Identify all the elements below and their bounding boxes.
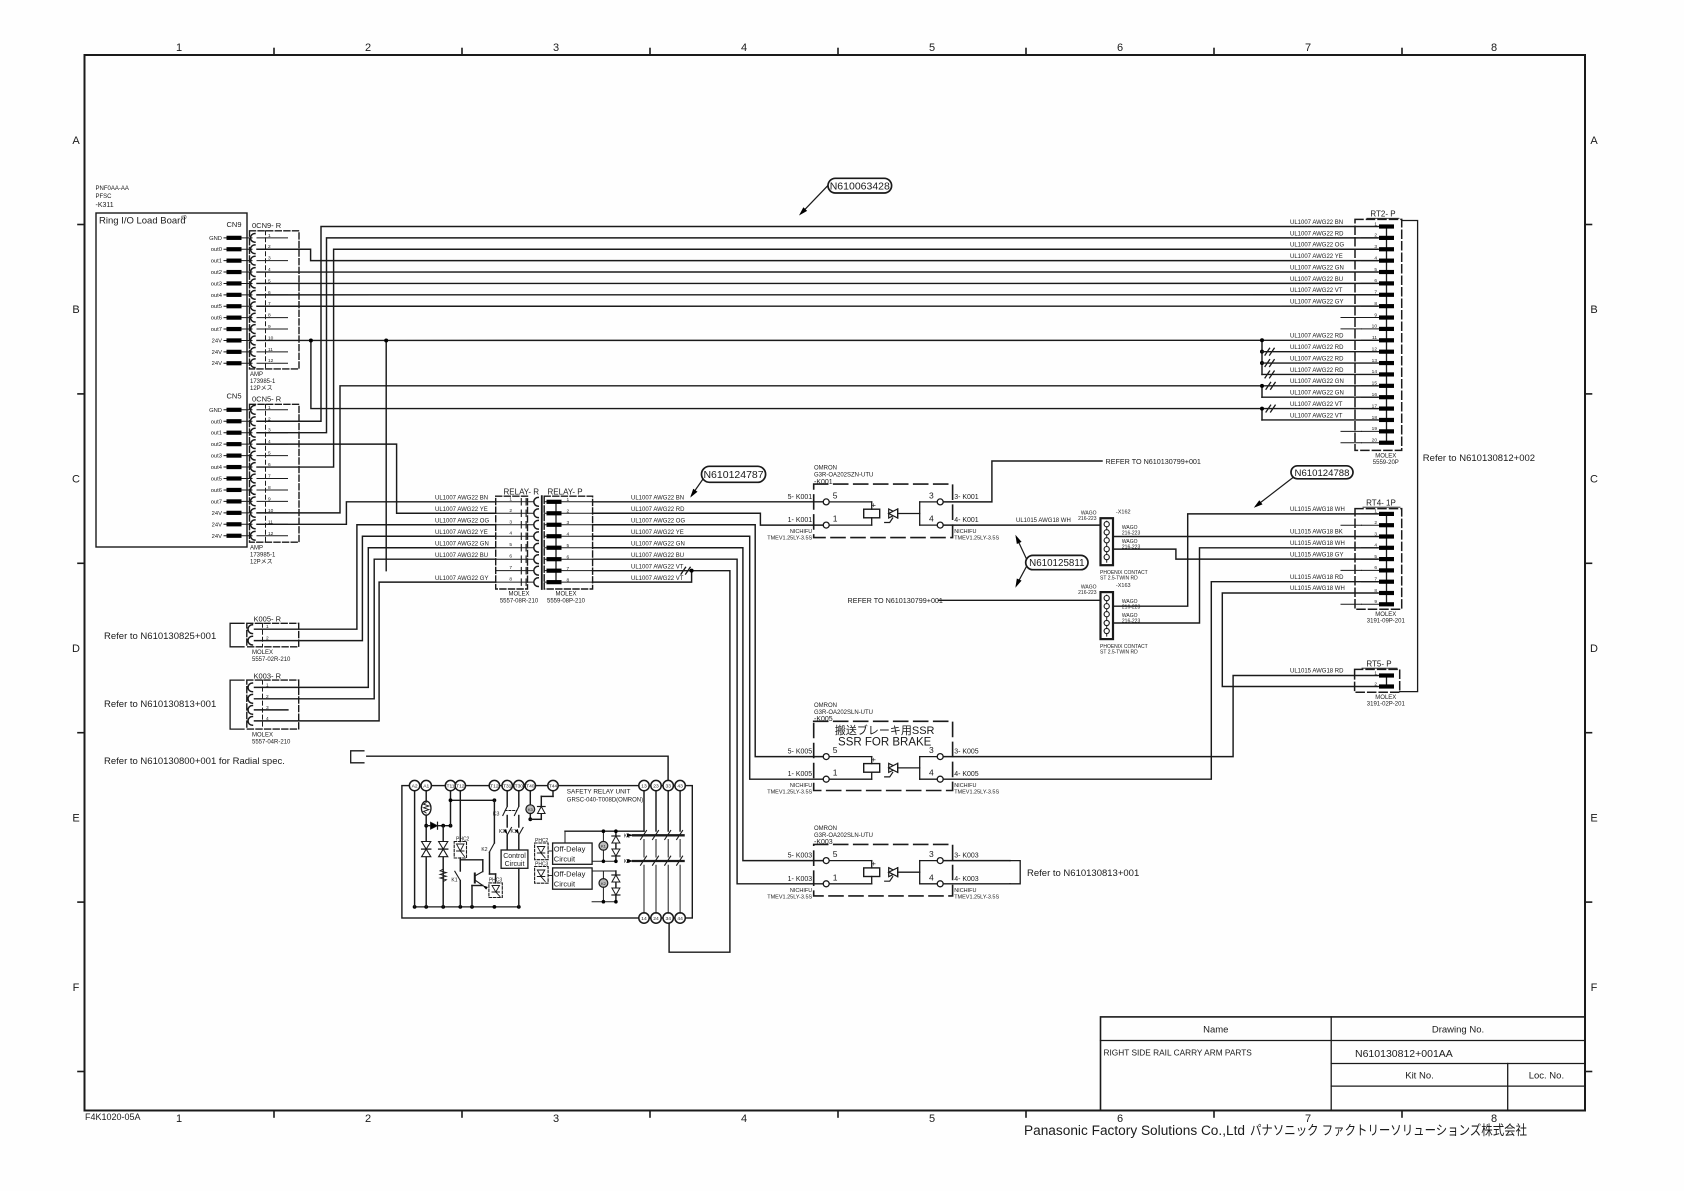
svg-text:OMRON: OMRON (814, 466, 837, 472)
wire RT2-P pin13 (1262, 362, 1378, 364)
node junction RT2-P pins 11-14 bundle (1261, 340, 1263, 374)
svg-text:7: 7 (509, 565, 512, 571)
svg-text:K1: K1 (510, 829, 516, 835)
svg-text:N610124787: N610124787 (703, 469, 763, 481)
wire RELAY-P pins7+8 VT pair to terminal 34 (593, 571, 730, 953)
svg-text:MOLEX: MOLEX (1375, 695, 1396, 701)
svg-text:3: 3 (929, 490, 934, 500)
svg-text:34: 34 (665, 916, 671, 922)
svg-text:1- K005: 1- K005 (788, 771, 813, 778)
wire X162 to RT4-1P pin5 GY (1113, 549, 1378, 559)
svg-text:19: 19 (1372, 426, 1378, 432)
box control circuit (501, 850, 528, 868)
svg-text:2: 2 (1374, 520, 1377, 526)
svg-text:14: 14 (641, 916, 647, 922)
svg-text:1: 1 (567, 497, 570, 503)
svg-text:PFSC: PFSC (96, 194, 113, 200)
svg-text:out4: out4 (211, 293, 223, 299)
node terminal 24 (651, 913, 661, 923)
wire branch 24V down to RELAY-R pin7 (385, 340, 387, 570)
svg-text:UL1007 AWG22 GN: UL1007 AWG22 GN (1290, 391, 1344, 397)
svg-text:out6: out6 (211, 316, 222, 322)
svg-text:搬送ブレーキ用SSR: 搬送ブレーキ用SSR (835, 723, 935, 737)
connector -X162 WAGO strip (1101, 518, 1114, 565)
svg-text:REFER TO N610130799+001: REFER TO N610130799+001 (848, 596, 943, 605)
svg-text:24V: 24V (212, 534, 222, 540)
node junction RT2-P pins 17-18 (1261, 409, 1263, 420)
svg-text:Refer to N610130813+001: Refer to N610130813+001 (104, 699, 216, 710)
diode pair right 2 (615, 871, 617, 902)
svg-text:UL1007 AWG22 YE: UL1007 AWG22 YE (1290, 254, 1343, 260)
svg-text:UL1007 AWG22 BN: UL1007 AWG22 BN (435, 496, 488, 502)
wire K001 pin3 to refer note (943, 461, 1102, 502)
svg-text:RELAY- P: RELAY- P (548, 488, 583, 497)
svg-text:UL1007 AWG22 RD: UL1007 AWG22 RD (1290, 368, 1344, 374)
svg-text:1: 1 (833, 872, 838, 882)
svg-text:UL1007 AWG22 VT: UL1007 AWG22 VT (631, 564, 684, 570)
svg-text:UL1007 AWG22 GY: UL1007 AWG22 GY (435, 576, 488, 582)
svg-text:4: 4 (929, 768, 934, 778)
svg-text:24V: 24V (212, 350, 222, 356)
svg-text:T40: T40 (526, 784, 535, 790)
svg-text:UL1015 AWG18 GY: UL1015 AWG18 GY (1290, 552, 1343, 558)
svg-text:2: 2 (365, 42, 371, 54)
svg-text:T12: T12 (456, 784, 465, 790)
svg-text:out5: out5 (211, 304, 222, 310)
node terminal T12 (455, 780, 465, 790)
contact chain K1 (643, 791, 645, 831)
svg-text:Circuit: Circuit (505, 861, 525, 868)
svg-text:SSR FOR BRAKE: SSR FOR BRAKE (838, 736, 932, 748)
svg-text:MOLEX: MOLEX (252, 650, 273, 656)
svg-text:K2: K2 (624, 859, 630, 865)
svg-text:F: F (73, 982, 80, 994)
node terminal T31 (502, 780, 512, 790)
svg-text:A2: A2 (412, 784, 418, 790)
svg-text:N610125811: N610125811 (1029, 558, 1084, 569)
svg-text:C: C (1590, 474, 1598, 486)
svg-text:0CN5- R: 0CN5- R (252, 395, 282, 404)
node callout N610124788 (1256, 478, 1293, 507)
svg-text:K005- R: K005- R (254, 615, 282, 624)
svg-text:G3R-OA202SLN-UTU: G3R-OA202SLN-UTU (814, 710, 873, 716)
svg-text:UL1007 AWG22 YE: UL1007 AWG22 YE (435, 507, 488, 513)
node terminal T40 (525, 780, 535, 790)
svg-text:4: 4 (741, 1113, 747, 1125)
wire K005-R pin2 to RELAY-R pin4 (255, 536, 496, 640)
svg-text:out0: out0 (211, 247, 222, 253)
svg-text:UL1007 AWG22 GN: UL1007 AWG22 GN (435, 542, 489, 548)
svg-text:8: 8 (1491, 42, 1497, 54)
svg-text:A1: A1 (423, 784, 429, 790)
svg-text:3- K005: 3- K005 (954, 749, 979, 756)
svg-text:B: B (72, 304, 79, 316)
svg-text:43: 43 (677, 784, 683, 790)
svg-text:4: 4 (741, 42, 747, 54)
svg-text:K3: K3 (528, 807, 534, 812)
svg-text:out5: out5 (211, 477, 222, 483)
contacts K2 K1 arrows (506, 816, 508, 828)
svg-text:E: E (1590, 812, 1597, 824)
node callout N610125811 (1017, 538, 1027, 560)
svg-text:24: 24 (653, 916, 659, 922)
svg-text:2: 2 (509, 508, 512, 514)
svg-text:OMRON: OMRON (814, 826, 837, 832)
wire RELAY-P pin5 to K003 pin5 (593, 548, 824, 861)
svg-text:23: 23 (653, 784, 659, 790)
svg-text:TMEV1.25LY-3.5S: TMEV1.25LY-3.5S (767, 790, 812, 796)
svg-text:3: 3 (553, 1113, 559, 1125)
svg-text:5: 5 (1374, 554, 1377, 560)
svg-text:Panasonic Factory Solutions Co: Panasonic Factory Solutions Co.,Ltd (1024, 1123, 1245, 1138)
svg-text:12Pメス: 12Pメス (250, 559, 273, 566)
wire 0CN9 pin10 24V distribution to RT2-P pin11 (257, 339, 1378, 341)
svg-text:MOLEX: MOLEX (1375, 612, 1396, 618)
svg-text:8: 8 (567, 577, 570, 583)
svg-text:AMP: AMP (250, 546, 263, 552)
svg-text:UL1007 AWG22 RD: UL1007 AWG22 RD (1290, 356, 1344, 362)
svg-text:out0: out0 (211, 419, 222, 425)
svg-text:T31: T31 (503, 784, 512, 790)
svg-text:NICHIFU: NICHIFU (790, 783, 812, 789)
svg-text:TMEV1.25LY-3.5S: TMEV1.25LY-3.5S (954, 536, 999, 542)
svg-text:UL1007 AWG22 OG: UL1007 AWG22 OG (631, 519, 685, 525)
svg-text:24V: 24V (212, 361, 222, 367)
svg-text:7: 7 (567, 566, 570, 572)
svg-text:out7: out7 (211, 327, 222, 333)
svg-text:out6: out6 (211, 488, 222, 494)
coil K1 indicator (599, 841, 608, 850)
svg-text:Drawing No.: Drawing No. (1432, 1025, 1484, 1036)
svg-text:33: 33 (665, 784, 671, 790)
svg-text:UL1007 AWG22 OG: UL1007 AWG22 OG (1290, 243, 1344, 249)
svg-text:3: 3 (509, 519, 512, 525)
wire branch 24V to RT2-P pin17 (311, 340, 1378, 408)
wire 0CN5 pin6 to RT2-P pin3 (257, 249, 1378, 467)
wire top distribution (565, 830, 644, 832)
svg-text:16: 16 (1372, 392, 1378, 398)
svg-text:5- K003: 5- K003 (788, 853, 813, 860)
wire X163 to RT4-1P pin4 WH (1113, 548, 1378, 623)
svg-text:GND: GND (209, 408, 222, 414)
svg-text:A: A (72, 135, 80, 147)
wire RT4-1P pin8 to RT5-P pin2 (1222, 593, 1378, 687)
wire K003-R pin1 to RELAY-R pin5 (255, 548, 496, 688)
svg-text:18: 18 (1372, 415, 1378, 421)
svg-text:out1: out1 (211, 259, 222, 265)
svg-text:NICHIFU: NICHIFU (954, 783, 976, 789)
wire X163 to RT4-1P pin1 WH (1113, 514, 1378, 606)
svg-text:216-223: 216-223 (1122, 531, 1141, 537)
svg-text:K3: K3 (493, 812, 500, 818)
svg-text:1: 1 (833, 514, 838, 524)
svg-text:20: 20 (1372, 438, 1378, 444)
svg-text:out4: out4 (211, 465, 223, 471)
svg-text:3- K001: 3- K001 (954, 494, 979, 501)
svg-text:UL1015 AWG18 WH: UL1015 AWG18 WH (1290, 541, 1345, 547)
svg-text:パナソニック ファクトリーソリューションズ株式会社: パナソニック ファクトリーソリューションズ株式会社 (1250, 1123, 1527, 1138)
node terminal T30 (514, 780, 524, 790)
wire K003-R pin2 to RELAY-R pin6 (255, 559, 496, 699)
svg-text:out2: out2 (211, 270, 222, 276)
svg-text:MOLEX: MOLEX (252, 733, 273, 739)
wire 0CN5 pin11 to RELAY-R pin1 (257, 502, 496, 525)
svg-text:A: A (1590, 135, 1598, 147)
svg-text:5559-08P-210: 5559-08P-210 (547, 599, 586, 605)
svg-text:+: + (872, 755, 877, 764)
svg-text:5: 5 (929, 42, 935, 54)
svg-text:UL1007 AWG22 BN: UL1007 AWG22 BN (631, 496, 684, 502)
svg-text:0CN9- R: 0CN9- R (252, 221, 282, 230)
resistor lamp on A1 (425, 791, 427, 802)
wire radial spec bracket to terminal 33 (351, 751, 364, 763)
wire K005-R pin1 to RELAY-R pin3 (255, 525, 496, 629)
svg-text:Off-Delay: Off-Delay (554, 845, 586, 854)
svg-text:Loc. No.: Loc. No. (1529, 1071, 1564, 1082)
svg-text:Name: Name (1203, 1025, 1228, 1036)
svg-text:TMEV1.25LY-3.5S: TMEV1.25LY-3.5S (767, 536, 812, 542)
node terminal A1 (421, 780, 431, 790)
transistor Q1 (460, 859, 483, 861)
wire internal bottom bus (415, 906, 519, 908)
wire 0CN9 pin7 to RT2-P pin8 (257, 305, 1378, 307)
svg-text:6: 6 (509, 554, 512, 560)
svg-text:NICHIFU: NICHIFU (790, 888, 812, 894)
svg-text:13: 13 (1372, 358, 1378, 364)
node terminal T12 (489, 780, 499, 790)
svg-text:7: 7 (1374, 577, 1377, 583)
svg-text:3- K003: 3- K003 (954, 853, 979, 860)
svg-text:5: 5 (1374, 267, 1377, 273)
svg-text:1: 1 (1374, 221, 1377, 227)
svg-text:-X162: -X162 (1116, 509, 1131, 515)
svg-text:UL1007 AWG22 BU: UL1007 AWG22 BU (1290, 277, 1343, 283)
svg-text:T30: T30 (515, 784, 524, 790)
svg-text:UL1007 AWG22 RD: UL1007 AWG22 RD (1290, 231, 1344, 237)
svg-text:4- K001: 4- K001 (954, 517, 979, 524)
svg-text:G3R-OA202SLN-UTU: G3R-OA202SLN-UTU (814, 833, 873, 839)
coil K3 lamp on T40 (529, 791, 531, 805)
svg-text:MOLEX: MOLEX (555, 592, 576, 598)
wire 0CN5 pin3 to RT2-P pin2 (257, 238, 1378, 433)
node terminal 43 (675, 780, 685, 790)
svg-text:2: 2 (567, 508, 570, 514)
svg-text:Circuit: Circuit (554, 855, 576, 864)
svg-text:out3: out3 (211, 281, 222, 287)
svg-text:2: 2 (1374, 233, 1377, 239)
wire K005 pin4 to RT4-1P pin7 (943, 582, 1378, 780)
svg-text:1: 1 (833, 768, 838, 778)
title block (1101, 1017, 1586, 1111)
svg-text:MOLEX: MOLEX (1375, 454, 1396, 460)
svg-text:5557-08R-210: 5557-08R-210 (500, 599, 539, 605)
wire 0CN9 pin5 to RT2-P pin6 (257, 282, 1378, 284)
svg-text:12: 12 (1372, 346, 1378, 352)
wire RT2-P pin18 (1262, 419, 1378, 421)
svg-text:#0: #0 (181, 215, 187, 221)
svg-text:Ring I/O Load Board: Ring I/O Load Board (99, 216, 186, 227)
svg-text:UL1007 AWG22 YE: UL1007 AWG22 YE (435, 530, 488, 536)
svg-text:K1: K1 (624, 833, 630, 839)
svg-text:UL1007 AWG22 BU: UL1007 AWG22 BU (631, 553, 684, 559)
svg-text:PNF0AA-AA: PNF0AA-AA (96, 186, 129, 192)
svg-text:2: 2 (365, 1113, 371, 1125)
wire K003-R pin4 to RELAY-R pin8 (255, 582, 496, 721)
svg-text:-X163: -X163 (1116, 583, 1131, 589)
svg-text:173985-1: 173985-1 (250, 379, 276, 385)
wire 0CN5 pin2 to RT2-P pin1 (257, 227, 1378, 422)
svg-text:UL1015 AWG18 WH: UL1015 AWG18 WH (1016, 518, 1071, 524)
node terminal 44 (675, 913, 685, 923)
svg-text:UL1007 AWG22 RD: UL1007 AWG22 RD (1290, 334, 1344, 340)
svg-text:CN5: CN5 (226, 392, 241, 401)
svg-text:D: D (1590, 643, 1598, 655)
svg-text:216-223: 216-223 (1122, 605, 1141, 611)
svg-text:TMEV1.25LY-3.5S: TMEV1.25LY-3.5S (767, 894, 812, 900)
contact K1 (459, 858, 461, 871)
svg-text:Off-Delay: Off-Delay (554, 869, 586, 878)
diode pair right 1 (615, 831, 617, 861)
wire RT2-P pin16 (1262, 396, 1378, 398)
wire RELAY-P pin6 to K003 pin1 (593, 559, 824, 884)
zener pair on A1 column (422, 842, 431, 850)
svg-text:T44: T44 (549, 784, 558, 790)
svg-text:UL1007 AWG22 RD: UL1007 AWG22 RD (631, 507, 685, 513)
svg-text:3: 3 (1374, 244, 1377, 250)
coil K2 indicator (599, 879, 608, 888)
svg-text:ST 2.5-TWIN RD: ST 2.5-TWIN RD (1100, 649, 1138, 655)
svg-text:RT5- P: RT5- P (1366, 660, 1391, 669)
svg-text:UL1007 AWG22 VT: UL1007 AWG22 VT (631, 576, 684, 582)
svg-text:1- K003: 1- K003 (788, 876, 813, 883)
node terminal 23 (651, 780, 661, 790)
svg-text:out7: out7 (211, 499, 222, 505)
svg-text:3191-02P-201: 3191-02P-201 (1367, 702, 1406, 708)
svg-text:K2: K2 (481, 847, 487, 853)
svg-text:5557-02R-210: 5557-02R-210 (252, 657, 291, 663)
optocoupler PHC3 mid (535, 867, 549, 884)
svg-text:REFER TO N610130799+001: REFER TO N610130799+001 (1106, 457, 1201, 466)
svg-text:5- K001: 5- K001 (788, 494, 813, 501)
wire bracket refer to 812+002 (1400, 221, 1418, 692)
wire T11 column (450, 791, 452, 826)
svg-text:N610124788: N610124788 (1295, 468, 1350, 479)
svg-text:UL1007 AWG22 VT: UL1007 AWG22 VT (1290, 413, 1343, 419)
wire K003-R pin3 stub (255, 709, 288, 711)
svg-text:5- K005: 5- K005 (788, 749, 813, 756)
svg-text:1: 1 (1374, 670, 1377, 676)
svg-text:1: 1 (509, 496, 512, 502)
svg-text:ST 2.5-TWIN RD: ST 2.5-TWIN RD (1100, 575, 1138, 581)
svg-text:N610130812+001AA: N610130812+001AA (1355, 1048, 1453, 1060)
svg-text:+: + (872, 859, 877, 868)
diode A1 to T11 (426, 825, 450, 827)
svg-text:NICHIFU: NICHIFU (954, 529, 976, 535)
svg-text:Refer to N610130813+001: Refer to N610130813+001 (1027, 868, 1139, 879)
wire K001 pin4 to WAGO X162 (943, 524, 1100, 526)
svg-text:24V: 24V (212, 338, 222, 344)
node terminal 13 (639, 780, 649, 790)
svg-text:RT4- 1P: RT4- 1P (1366, 499, 1396, 508)
svg-text:3: 3 (929, 849, 934, 859)
svg-text:9: 9 (1374, 599, 1377, 605)
svg-text:UL1007 AWG22 GN: UL1007 AWG22 GN (631, 542, 685, 548)
svg-text:C: C (72, 474, 80, 486)
optocoupler PHC3 (489, 883, 502, 898)
svg-text:K2: K2 (601, 881, 607, 886)
svg-text:24V: 24V (212, 522, 222, 528)
svg-text:UL1007 AWG22 BU: UL1007 AWG22 BU (435, 553, 488, 559)
svg-text:3: 3 (567, 520, 570, 526)
wire 0CN9 pin2 to RT2-P pin4 (257, 249, 1378, 260)
svg-text:6: 6 (567, 554, 570, 560)
connector -X163 WAGO strip (1101, 592, 1114, 639)
svg-text:8: 8 (1374, 301, 1377, 307)
wire X162 to RT4-1P pin3 BK (1113, 536, 1378, 538)
svg-text:K2: K2 (499, 829, 505, 835)
svg-text:7: 7 (1305, 42, 1311, 54)
svg-text:UL1015 AWG18 RD: UL1015 AWG18 RD (1290, 575, 1344, 581)
contact K2 (493, 800, 495, 843)
svg-text:5: 5 (833, 490, 838, 500)
svg-text:UL1007 AWG22 GN: UL1007 AWG22 GN (1290, 265, 1344, 271)
svg-text:Refer to N610130812+002: Refer to N610130812+002 (1423, 453, 1535, 464)
svg-text:13: 13 (641, 784, 647, 790)
svg-text:NICHIFU: NICHIFU (790, 529, 812, 535)
wire RELAY-P pin1 to K001 pin5 (593, 501, 824, 503)
svg-text:UL1007 AWG22 VT: UL1007 AWG22 VT (1290, 288, 1343, 294)
svg-text:1: 1 (1374, 509, 1377, 515)
svg-text:216-223: 216-223 (1078, 590, 1097, 596)
wire 0CN9 pin6 to RT2-P pin7 (257, 294, 1378, 296)
svg-text:5557-04R-210: 5557-04R-210 (252, 740, 291, 746)
node terminal T11 (445, 780, 455, 790)
svg-text:5: 5 (929, 1113, 935, 1125)
wire A2 column (414, 791, 416, 907)
svg-text:E: E (72, 812, 79, 824)
svg-text:SAFETY RELAY UNIT: SAFETY RELAY UNIT (567, 789, 631, 796)
svg-text:7: 7 (1374, 290, 1377, 296)
svg-text:K003- R: K003- R (254, 672, 282, 681)
wire RELAY-P pin2 to K001 pin1 (593, 513, 824, 525)
svg-text:4: 4 (509, 531, 512, 537)
wire RT2-P pin14 (1262, 373, 1378, 375)
box off-delay circuit 2 (553, 868, 593, 889)
svg-text:out3: out3 (211, 454, 222, 460)
svg-text:11: 11 (1372, 335, 1377, 341)
svg-text:Refer to N610130800+001 for Ra: Refer to N610130800+001 for Radial spec. (104, 756, 285, 767)
svg-text:UL1007 AWG22 GN: UL1007 AWG22 GN (1290, 379, 1344, 385)
svg-text:4- K005: 4- K005 (954, 771, 979, 778)
svg-text:+: + (872, 501, 877, 510)
svg-text:UL1007 AWG22 OG: UL1007 AWG22 OG (435, 519, 489, 525)
svg-text:UL1015 AWG18 WH: UL1015 AWG18 WH (1290, 507, 1345, 513)
svg-text:RIGHT SIDE RAIL CARRY ARM PART: RIGHT SIDE RAIL CARRY ARM PARTS (1104, 1048, 1253, 1058)
optocoupler PHC2 (459, 791, 461, 842)
svg-text:1- K001: 1- K001 (788, 517, 813, 524)
svg-text:4: 4 (929, 514, 934, 524)
svg-text:Control: Control (503, 853, 526, 860)
svg-text:2: 2 (1374, 681, 1377, 687)
wire K003 pins3-4 to refer note 813 (943, 860, 1010, 862)
svg-text:4: 4 (929, 872, 934, 882)
node terminal 14 (639, 913, 649, 923)
svg-text:216-223: 216-223 (1078, 516, 1097, 522)
svg-text:OMRON: OMRON (814, 703, 837, 709)
svg-text:N610063428: N610063428 (830, 180, 890, 192)
svg-text:MOLEX: MOLEX (508, 592, 529, 598)
wire 0CN9 pin4 to RT2-P pin5 (257, 271, 1378, 273)
